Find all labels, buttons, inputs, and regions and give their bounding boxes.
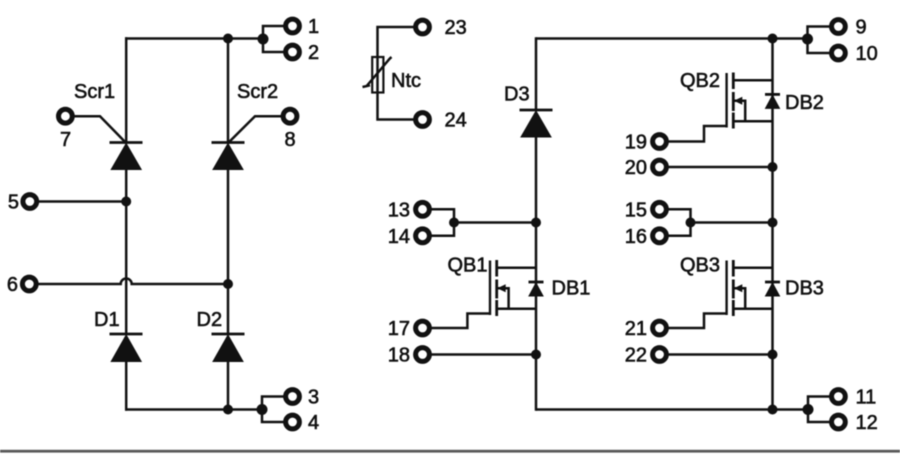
svg-text:22: 22: [625, 345, 647, 367]
transistor QB3 channel dashes: [732, 260, 735, 316]
svg-text:Scr2: Scr2: [237, 81, 278, 103]
diode D3: [520, 110, 553, 137]
svg-text:D3: D3: [504, 83, 530, 105]
transistor QB1 source wire: [497, 307, 536, 310]
transistor QB3 body wire: [734, 288, 745, 308]
terminal 7: [59, 109, 73, 123]
transistor QB3 drain wire: [733, 266, 772, 269]
svg-text:Scr1: Scr1: [74, 81, 115, 103]
terminal 12: [832, 415, 846, 429]
terminal 6: [22, 277, 36, 291]
terminal 21: [653, 321, 667, 335]
svg-text:19: 19: [625, 132, 647, 154]
wire terminal 20 to right rail: [668, 166, 772, 169]
wire terminal 18 to left rail: [431, 353, 536, 356]
node 22 junction on right rail: [768, 350, 778, 360]
terminal 5: [23, 195, 37, 209]
wire terminals 13 14 merge to left rail: [431, 209, 536, 236]
svg-text:7: 7: [60, 129, 71, 151]
svg-text:13: 13: [388, 200, 410, 222]
node right rail top: [768, 34, 778, 44]
svg-text:12: 12: [856, 412, 878, 434]
wire top rail left: [125, 37, 263, 40]
thermistor Ntc diagonal mark: [363, 57, 392, 87]
svg-text:23: 23: [445, 17, 467, 39]
terminal 15: [653, 202, 667, 216]
terminal 14: [416, 229, 430, 243]
svg-text:1: 1: [308, 16, 319, 38]
node right rail bottom: [768, 405, 778, 415]
wire bottom rail right: [536, 408, 808, 411]
svg-text:8: 8: [284, 129, 295, 151]
svg-text:QB2: QB2: [680, 70, 720, 92]
terminal 2: [286, 45, 300, 59]
terminal 23: [416, 20, 430, 34]
transistor QB3 gate bar: [725, 261, 727, 316]
wire fork to terminals 9 10: [808, 27, 830, 54]
transistor QB3 source wire: [733, 307, 772, 310]
transistor QB1 drain wire: [497, 266, 536, 269]
terminal 4: [286, 415, 300, 429]
terminal 13: [416, 202, 430, 216]
wire terminals 15 16 merge to right rail: [668, 209, 772, 236]
transistor QB2 body wire: [734, 101, 745, 121]
svg-text:QB3: QB3: [680, 254, 720, 276]
terminal 19: [653, 135, 667, 149]
wire terminal 22 to right rail: [668, 353, 772, 356]
wire bottom rail left: [125, 408, 262, 411]
svg-text:QB1: QB1: [448, 254, 488, 276]
diode DB3: [765, 282, 780, 296]
terminal 18: [416, 348, 430, 362]
node fork terminals 9 10: [802, 34, 813, 45]
wire fork to terminals 1 2: [263, 26, 284, 52]
wire left rail lower (D3 to bottom rail): [535, 137, 538, 411]
node 6 junction: [223, 279, 233, 289]
terminal 20: [653, 160, 667, 174]
node top of Scr2 branch: [223, 34, 233, 44]
svg-text:20: 20: [625, 157, 647, 179]
svg-text:5: 5: [8, 192, 19, 214]
wire terminal 5 to branch A: [39, 200, 127, 203]
node 13/14 junction on left rail: [531, 218, 541, 228]
svg-text:18: 18: [388, 345, 410, 367]
node fork terminals 11 12: [803, 404, 814, 415]
diode D2: [212, 334, 245, 362]
svg-text:9: 9: [856, 17, 867, 39]
node merge 13 14: [449, 218, 459, 228]
terminal 17: [416, 321, 430, 335]
svg-text:15: 15: [625, 200, 647, 222]
svg-text:D2: D2: [197, 309, 223, 331]
transistor QB1 body arrow: [497, 284, 506, 292]
svg-text:DB2: DB2: [785, 92, 824, 114]
svg-text:10: 10: [856, 43, 878, 65]
svg-text:11: 11: [856, 387, 877, 409]
node 5 junction: [121, 197, 131, 207]
terminal 9: [832, 20, 846, 34]
svg-text:21: 21: [625, 318, 647, 340]
terminal 16: [653, 229, 667, 243]
wire branch A middle (Scr1 cathode to D1): [125, 170, 128, 335]
thermistor Ntc body: [372, 57, 383, 93]
terminal 11: [832, 390, 846, 404]
node merge 15 16: [686, 218, 696, 228]
node 20 junction on right rail: [768, 162, 778, 172]
terminal 3: [286, 390, 300, 404]
wire QB3 gate step to terminal 21: [668, 314, 726, 329]
wire branch B lower (D2 to bottom rail): [227, 362, 230, 410]
wire QB1 gate step to terminal 17: [431, 314, 490, 329]
wire branch A lower (D1 to bottom rail): [125, 362, 128, 411]
svg-text:2: 2: [308, 42, 319, 64]
bottom rule: [0, 450, 900, 453]
terminal 8: [283, 109, 297, 123]
diode DB1: [529, 282, 544, 296]
wire branch A upper (Scr1 anode to top rail): [125, 37, 128, 142]
wire branch B upper (Scr2 to top rail): [227, 39, 230, 143]
svg-text:DB1: DB1: [552, 277, 591, 299]
node 15/16 junction on right rail: [768, 218, 778, 228]
terminal 1: [286, 19, 300, 33]
svg-text:17: 17: [388, 318, 410, 340]
transistor QB2 channel dashes: [732, 73, 735, 129]
wire fork to terminals 11 12: [808, 397, 830, 423]
svg-text:6: 6: [7, 274, 18, 296]
node fork terminals 1 2: [258, 34, 269, 45]
wire top rail right: [536, 37, 808, 40]
svg-text:24: 24: [445, 110, 467, 132]
svg-text:D1: D1: [94, 309, 120, 331]
diode DB2: [765, 94, 780, 108]
svg-text:Ntc: Ntc: [391, 70, 421, 92]
transistor QB1 channel dashes: [495, 260, 498, 316]
diode D1: [110, 334, 143, 362]
node 18 junction on left rail: [531, 350, 541, 360]
svg-text:16: 16: [625, 226, 647, 248]
transistor QB1 gate bar: [489, 261, 491, 316]
terminal 22: [653, 348, 667, 362]
transistor QB1 body wire: [498, 288, 509, 308]
wire QB2 gate step to terminal 19: [668, 126, 726, 142]
svg-text:14: 14: [388, 226, 410, 248]
node bottom of branch B: [223, 405, 233, 415]
svg-text:3: 3: [308, 387, 319, 409]
terminal 10: [832, 46, 846, 60]
wire terminal 23 to thermistor to terminal 24: [378, 27, 414, 120]
svg-text:DB3: DB3: [785, 278, 824, 300]
svg-text:4: 4: [308, 412, 319, 434]
transistor QB2 body arrow: [734, 97, 743, 105]
node fork terminals 3 4: [257, 404, 268, 415]
wire branch B middle (Scr2 cathode to D2): [227, 170, 230, 335]
wire left rail upper (top rail to D3): [535, 37, 538, 110]
wire fork to terminals 3 4: [262, 397, 284, 423]
thyristor Scr1: [74, 116, 142, 169]
terminal 24: [416, 113, 430, 127]
transistor QB2 drain wire: [733, 79, 772, 82]
wire right rail (DB2/DB3 rail): [771, 39, 774, 411]
transistor QB3 body arrow: [734, 284, 743, 292]
thyristor Scr2: [212, 116, 282, 169]
transistor QB2 gate bar: [725, 73, 727, 128]
wire terminal 6 to branch B with hop over branch A: [38, 279, 229, 285]
transistor QB2 source wire: [733, 120, 772, 123]
